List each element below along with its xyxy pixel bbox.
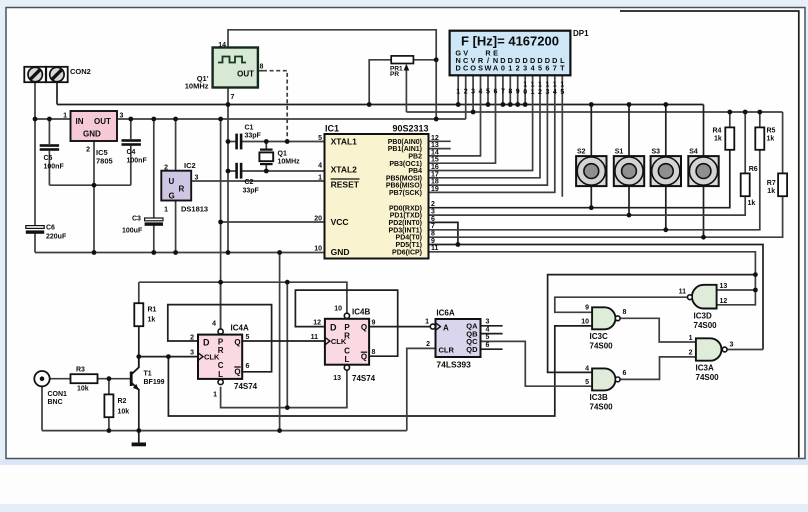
wire: CLK node to IC3C pin10	[168, 326, 592, 416]
svg-text:8: 8	[372, 349, 376, 356]
svg-text:33pF: 33pF	[243, 188, 260, 195]
svg-text:BF199: BF199	[144, 379, 165, 386]
wire: oscillator pin7 ground vertical	[227, 88, 229, 253]
svg-text:D: D	[203, 337, 210, 347]
wire: R1 bottom to collector node	[138, 326, 140, 356]
wire: top ground rail	[57, 104, 704, 106]
svg-text:S3: S3	[652, 149, 661, 156]
svg-text:U: U	[169, 177, 175, 186]
svg-text:1k: 1k	[748, 200, 756, 207]
node: PR1 right	[434, 57, 439, 62]
svg-text:3: 3	[195, 175, 199, 182]
wire: IC2 pin1 down to ground	[175, 201, 177, 253]
svg-text:IN: IN	[76, 117, 84, 126]
wire: DP1 pin12 to PB5	[429, 75, 541, 178]
wire: CON1 down	[41, 386, 43, 430]
capacitor C3 (polarized)	[122, 216, 163, 235]
svg-text:PB5(MOSI): PB5(MOSI)	[386, 175, 422, 182]
wire: S1 bottom	[628, 186, 630, 215]
svg-text:IC2: IC2	[184, 161, 196, 170]
resistor R7	[767, 173, 787, 196]
node: S bottoms	[589, 205, 594, 210]
wire: R6 top	[744, 112, 746, 173]
svg-text:2: 2	[86, 147, 90, 154]
svg-text:4: 4	[585, 365, 589, 372]
node: rail R2	[107, 428, 112, 433]
node: collector CLK	[136, 354, 141, 359]
svg-text:GND: GND	[83, 130, 101, 139]
svg-text:14: 14	[218, 42, 226, 49]
svg-text:IC4A: IC4A	[231, 324, 249, 333]
svg-text:10k: 10k	[118, 409, 130, 416]
svg-text:1: 1	[531, 89, 535, 96]
svg-text:5: 5	[246, 334, 250, 341]
svg-text:PB4: PB4	[408, 168, 422, 175]
svg-text:1: 1	[456, 89, 460, 96]
node: +12V in	[33, 117, 38, 122]
svg-text:7805: 7805	[96, 157, 113, 166]
wire: R5 top	[759, 112, 761, 127]
wire: IC4B Q to IC6A input	[369, 326, 431, 328]
wire: C2 left lead	[228, 170, 236, 172]
node: gnd line osc	[226, 250, 231, 255]
wire: oscillator pin14 top wire to +5V feed	[228, 30, 436, 119]
node: IC5 pin2 gnd	[92, 183, 97, 188]
wire: PD5 line to IC3A output vertical	[429, 245, 764, 350]
wire: gnd sub-line C5/IC5 pin2/C4	[49, 184, 130, 186]
wire: R1 top to +5V mid line	[138, 282, 140, 303]
wire: IC6A QC to IC3B pin5	[481, 341, 592, 386]
node: osc pin7 gnd rail	[226, 102, 231, 107]
wire: PR1 wiper down to VO rail	[405, 66, 407, 112]
regulator IC5 7805	[63, 111, 123, 166]
node: VCC line	[218, 220, 223, 225]
svg-text:C: C	[344, 346, 350, 355]
wire: PD0 line IC1 to R4	[429, 150, 730, 208]
svg-text:S1: S1	[615, 149, 624, 156]
svg-text:1: 1	[560, 82, 564, 89]
inner top-right frame line	[620, 11, 799, 458]
MCU IC1 90S2313	[314, 124, 439, 259]
svg-text:10k: 10k	[77, 386, 89, 393]
svg-text:2: 2	[431, 201, 435, 208]
svg-text:Q: Q	[234, 368, 240, 377]
wire: PD3 line IC1 to R5	[429, 150, 760, 230]
svg-text:5: 5	[318, 135, 322, 142]
svg-text:12: 12	[431, 135, 439, 142]
svg-text:6: 6	[246, 363, 250, 370]
wire: IC3A output to PD5 vertical	[727, 349, 763, 351]
node: CLR line link	[285, 405, 290, 410]
svg-text:IC3D: IC3D	[694, 312, 712, 321]
wire: emitter down to rail and ground symbol	[138, 389, 140, 443]
svg-text:1: 1	[689, 335, 693, 342]
svg-text:PB2: PB2	[408, 154, 422, 161]
node: rail gnd-link	[277, 428, 282, 433]
wire: PR1 left lead down to ground rail	[369, 60, 391, 105]
capacitor C4	[122, 139, 148, 164]
svg-text:8: 8	[260, 64, 264, 71]
svg-text:L: L	[345, 355, 350, 364]
wire: C5 leads	[48, 119, 50, 144]
wire: +5V feed down to VCC line / mid +5V line / IC4A PRE	[220, 119, 222, 329]
svg-text:R5: R5	[767, 127, 776, 134]
svg-text:R2: R2	[118, 398, 127, 405]
wire: R7 top	[782, 112, 784, 173]
svg-text:CON2: CON2	[70, 67, 91, 76]
svg-text:74S00: 74S00	[696, 373, 720, 382]
node: XTAL1 C1	[226, 139, 231, 144]
svg-text:5: 5	[486, 89, 490, 96]
svg-text:PB3(OC1): PB3(OC1)	[389, 161, 422, 168]
wire: IC6A QB stub	[481, 333, 503, 335]
svg-text:100nF: 100nF	[127, 158, 148, 165]
svg-text:3: 3	[523, 63, 527, 72]
wire: PD1 line IC1 to R6	[429, 196, 746, 215]
nand IC3C 74S00	[581, 305, 626, 351]
svg-text:C2: C2	[245, 179, 254, 186]
wire: IC6A CLR to ground rail	[407, 348, 436, 430]
svg-text:OUT: OUT	[94, 117, 111, 126]
svg-text:0: 0	[523, 89, 527, 96]
svg-text:3: 3	[190, 350, 194, 357]
potentiometer PR1	[390, 56, 413, 78]
wire: +12V line into IC5 IN	[35, 118, 71, 120]
svg-text:1: 1	[318, 175, 322, 182]
svg-text:D: D	[456, 63, 461, 72]
svg-text:1: 1	[538, 82, 542, 89]
svg-text:XTAL2: XTAL2	[331, 164, 358, 174]
svg-text:Q: Q	[361, 323, 367, 332]
node: DP1 gnd pins	[456, 102, 461, 107]
node: XTAL1 dashed	[285, 139, 290, 144]
flip-flop IC4B 74S74	[311, 306, 376, 384]
svg-text:11: 11	[431, 245, 439, 252]
connector CON2	[24, 67, 91, 82]
svg-text:O: O	[470, 63, 476, 72]
wire: IC3B output to IC3A pin2	[620, 357, 696, 380]
svg-text:10: 10	[334, 306, 342, 313]
wire: PB0 stub	[429, 140, 451, 142]
svg-text:1k: 1k	[148, 317, 156, 324]
wire: CON1 to R3	[50, 378, 71, 380]
connector CON1 BNC	[34, 371, 67, 406]
svg-text:3: 3	[545, 89, 549, 96]
nand IC3D 74S00 (mirrored)	[679, 283, 728, 330]
wire: IC6A QA stub	[481, 325, 503, 327]
svg-text:PR: PR	[390, 71, 399, 78]
svg-text:11: 11	[679, 289, 687, 296]
svg-text:1: 1	[63, 113, 67, 120]
svg-text:PD0(RXD): PD0(RXD)	[389, 205, 422, 212]
svg-text:4: 4	[479, 89, 483, 96]
capacitor C1	[235, 125, 261, 150]
svg-text:R: R	[344, 331, 350, 340]
oscillator Q1'	[185, 42, 264, 101]
svg-text:8: 8	[508, 89, 512, 96]
svg-text:3: 3	[486, 319, 490, 326]
svg-text:A: A	[443, 324, 449, 333]
wire: oscillator pin8 stub	[258, 70, 263, 72]
wire: XTAL2 line C2 to IC1	[242, 170, 325, 172]
svg-text:Q: Q	[234, 338, 240, 347]
resistor R2	[104, 394, 129, 417]
svg-text:R4: R4	[713, 127, 722, 134]
svg-text:C1: C1	[245, 125, 254, 132]
wire: S3 top	[665, 105, 667, 157]
wire: DP1 pin5	[487, 75, 489, 104]
svg-text:1: 1	[164, 207, 168, 214]
wire: DP1 pin13 to PB6	[429, 75, 548, 185]
node: XTAL2 C2	[226, 169, 231, 174]
svg-text:R: R	[179, 185, 185, 194]
wire: dashed osc out to XTAL1	[263, 71, 287, 142]
wire: main ground line	[35, 252, 325, 254]
svg-text:L: L	[218, 370, 223, 379]
svg-text:BNC: BNC	[48, 399, 63, 406]
svg-text:6: 6	[486, 342, 490, 349]
wire: PD2 INT0 jog to PD5	[429, 222, 458, 244]
svg-text:R1: R1	[148, 307, 157, 314]
svg-text:10: 10	[581, 318, 589, 325]
node: IC2 vcc	[173, 117, 178, 122]
svg-text:2: 2	[516, 63, 520, 72]
node: gnd down-link top	[277, 250, 282, 255]
svg-text:7: 7	[231, 94, 235, 101]
node: PR1 left gnd	[367, 102, 372, 107]
wire: XTAL1 line C1 to IC1	[242, 141, 325, 143]
svg-text:3: 3	[471, 89, 475, 96]
svg-text:74LS393: 74LS393	[436, 360, 471, 370]
wire: CON2 left screw down to +12V node	[34, 82, 36, 119]
svg-text:2: 2	[426, 341, 430, 348]
wire: DP1 pin14 to PB7	[429, 75, 555, 192]
svg-text:GND: GND	[331, 247, 350, 257]
svg-text:1k: 1k	[767, 188, 775, 195]
svg-text:3: 3	[730, 342, 734, 349]
svg-text:1: 1	[523, 82, 527, 89]
wire: +5V rail from IC5 OUT to DP1 pin2	[117, 118, 466, 120]
svg-text:DP1: DP1	[573, 29, 589, 38]
wire: DP1 pin1	[457, 75, 459, 104]
svg-text:7: 7	[501, 89, 505, 96]
wire: C3 leads	[153, 119, 155, 218]
node: C5 top	[47, 117, 52, 122]
svg-text:4: 4	[318, 162, 322, 169]
svg-text:4: 4	[486, 326, 490, 333]
svg-text:G: G	[169, 192, 175, 201]
wire: R1/collector/CLK line	[139, 356, 198, 358]
wire: S3 bottom	[665, 186, 667, 230]
ground	[132, 442, 146, 446]
flip-flop IC4A 74S74	[190, 321, 258, 399]
wire: crystal bottom lead	[265, 165, 267, 171]
wire: IC6A QD stub	[481, 348, 503, 350]
node: C4 top	[128, 117, 133, 122]
wire: IC4A PRE pin4	[220, 282, 222, 328]
svg-text:T1: T1	[144, 371, 152, 378]
wire: DP1 pin3	[472, 75, 474, 112]
wire: IC4A loop Q-bar to D	[168, 305, 272, 372]
resistor R1	[134, 303, 156, 326]
svg-text:8: 8	[623, 309, 627, 316]
node: CLK down-link	[166, 354, 171, 359]
capacitor C5	[40, 144, 65, 170]
svg-text:1: 1	[553, 82, 557, 89]
wire: C4 leads	[130, 119, 132, 139]
svg-text:S4: S4	[689, 149, 698, 156]
node: +5V mid line feed	[218, 280, 223, 285]
svg-text:C5: C5	[44, 155, 53, 162]
svg-text:IC3A: IC3A	[696, 364, 714, 373]
svg-text:PD4(T0): PD4(T0)	[396, 235, 422, 242]
wire: DP1 pin2	[465, 75, 467, 119]
wire: IC1 VCC line	[221, 221, 325, 223]
node: gnd line IC2	[173, 250, 178, 255]
wire: crystal top lead	[265, 142, 267, 149]
svg-text:C6: C6	[46, 225, 55, 232]
svg-text:A: A	[493, 63, 499, 72]
wire: IC3D net to IC3B pin4	[548, 275, 756, 373]
svg-text:74S00: 74S00	[590, 342, 614, 351]
reset IC2 DS1813	[161, 161, 208, 214]
svg-text:0: 0	[501, 63, 505, 72]
wire: IC4B loop Q-bar to D	[295, 290, 397, 356]
svg-text:1k: 1k	[714, 135, 722, 142]
svg-text:17: 17	[431, 171, 439, 178]
wire: R4 top	[729, 112, 731, 127]
svg-text:74S74: 74S74	[352, 374, 376, 383]
svg-text:4: 4	[212, 321, 216, 328]
svg-text:10MHz: 10MHz	[278, 159, 301, 166]
svg-text:2: 2	[164, 165, 168, 172]
svg-text:5: 5	[486, 334, 490, 341]
svg-text:PD6(ICP): PD6(ICP)	[392, 249, 422, 256]
wire: S2 top	[590, 105, 592, 157]
resistor R4	[713, 127, 735, 150]
wire: IC3D pin13 stub	[717, 289, 756, 291]
node: gnd line IC5	[92, 250, 97, 255]
svg-text:PB6(MISO): PB6(MISO)	[386, 183, 422, 190]
svg-text:9: 9	[431, 238, 435, 245]
wire: PR1 right lead	[413, 59, 436, 61]
svg-text:9: 9	[516, 89, 520, 96]
svg-text:2: 2	[538, 89, 542, 96]
wire: IC3C output to IC3A pin1	[620, 318, 696, 342]
wire: S4 bottom	[703, 186, 705, 237]
wire: S2 bottom	[590, 186, 592, 208]
svg-text:19: 19	[431, 186, 439, 193]
nand IC3A 74S00	[689, 335, 734, 382]
wire: DP1 pin8	[509, 75, 511, 104]
wire: DP1 pin11 to PB4	[429, 75, 533, 170]
buttons S2 S1 S3 S4	[576, 149, 606, 187]
svg-text:IC1: IC1	[325, 124, 339, 134]
wire: IC4A Q to IC4B CLK	[242, 340, 325, 342]
wire: PD4 line IC1 to R7	[429, 196, 783, 237]
svg-text:9: 9	[372, 319, 376, 326]
svg-text:2: 2	[190, 335, 194, 342]
wire: VO rail	[406, 111, 782, 113]
svg-text:220uF: 220uF	[46, 234, 67, 241]
wire: IC3D output to IC3C pin9	[555, 297, 688, 312]
wire: R3 to base node	[98, 378, 131, 380]
svg-text:100uF: 100uF	[122, 228, 143, 235]
svg-text:W: W	[485, 63, 492, 72]
resistor R5	[755, 127, 775, 150]
node: PD5/PD2	[456, 242, 461, 247]
wire: DP1 pin9	[517, 75, 519, 104]
svg-text:16: 16	[431, 164, 439, 171]
resistor R6	[741, 166, 758, 207]
svg-text:100nF: 100nF	[44, 164, 65, 171]
svg-text:Q: Q	[361, 353, 367, 362]
node: +5V mid CLR link	[285, 280, 290, 285]
svg-text:9: 9	[585, 305, 589, 312]
nand IC3B 74S00	[585, 365, 626, 411]
node: IC3D input net	[753, 272, 758, 277]
svg-text:OUT: OUT	[237, 70, 254, 79]
DP1 pin numbers	[456, 82, 564, 97]
svg-text:VCC: VCC	[331, 217, 349, 227]
wire: C6 lead	[34, 119, 36, 226]
svg-text:IC3C: IC3C	[590, 332, 608, 341]
node: gnd line C3	[151, 250, 156, 255]
node: +5V feed	[218, 117, 223, 122]
svg-text:74S00: 74S00	[590, 403, 614, 412]
svg-text:CON1: CON1	[48, 391, 68, 398]
wire: S1 top	[628, 105, 630, 157]
wire: IC2 pin3 to IC1 RESET	[191, 180, 324, 182]
svg-text:PB0(AIN0): PB0(AIN0)	[388, 139, 422, 146]
svg-text:PB1(AIN1): PB1(AIN1)	[388, 146, 422, 153]
svg-text:14: 14	[431, 149, 439, 156]
svg-text:S2: S2	[577, 149, 586, 156]
svg-text:DS1813: DS1813	[181, 205, 208, 214]
svg-text:3: 3	[120, 113, 124, 120]
svg-text:XTAL1: XTAL1	[331, 136, 358, 146]
svg-text:13: 13	[333, 375, 341, 382]
svg-text:CLR: CLR	[439, 345, 455, 354]
svg-text:2: 2	[464, 89, 468, 96]
wire: IC5 pin2 down	[93, 141, 95, 253]
wire: bottom ground rail	[42, 430, 407, 432]
svg-text:12: 12	[313, 319, 321, 326]
wire: R2 bottom lead	[108, 417, 110, 430]
svg-text:7: 7	[553, 63, 557, 72]
svg-text:C3: C3	[132, 216, 141, 223]
svg-text:15: 15	[431, 157, 439, 164]
wire: DP1 pin4 to PB2	[429, 75, 481, 156]
svg-text:IC3B: IC3B	[590, 393, 608, 402]
svg-text:6: 6	[623, 370, 627, 377]
svg-text:1: 1	[213, 392, 217, 399]
wire: DP1 pin15 stub	[561, 75, 563, 196]
wire: PD6 line to IC3D inputs	[429, 252, 756, 305]
svg-text:20: 20	[314, 216, 322, 223]
svg-text:PD5(T1): PD5(T1)	[396, 242, 422, 249]
svg-text:90S2313: 90S2313	[392, 124, 428, 134]
svg-text:4: 4	[553, 89, 557, 96]
svg-text:10MHz: 10MHz	[185, 82, 209, 91]
svg-text:18: 18	[431, 179, 439, 186]
svg-text:13: 13	[431, 142, 439, 149]
capacitor C2	[235, 163, 259, 195]
svg-text:R7: R7	[767, 180, 776, 187]
svg-text:R6: R6	[749, 166, 758, 173]
svg-text:1k: 1k	[767, 135, 775, 142]
svg-text:C: C	[218, 361, 224, 370]
